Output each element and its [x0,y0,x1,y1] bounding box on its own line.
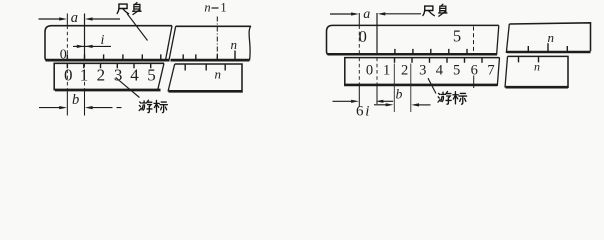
vernier bar bottom thick edge [55,89,161,92]
vernier right piece left break (slanted) [168,64,175,92]
svg-text:5: 5 [453,63,460,79]
extension line V2' dashed through vernier [376,58,378,86]
leader line to main bar [127,14,148,41]
dimension b: left arrow (points right at ext) on lower line [374,104,387,106]
svg-text:a: a [363,7,370,22]
extension line V2' bottom solid [376,86,378,105]
svg-text:i: i [101,33,105,48]
vernier right piece ticks [185,64,225,71]
vernier ticks (left piece) [67,63,150,68]
svg-text:1: 1 [220,1,226,15]
dimension b: right arrow segment [417,104,431,106]
svg-text:3: 3 [419,63,426,79]
vernier right piece top edge [175,64,242,93]
label youbiao 游标 (right figure) [438,92,451,105]
vernier right piece bottom thick edge [506,86,569,89]
main right piece bottom thick edge [171,59,250,62]
label chishen 尺身 (right figure) [423,6,434,16]
svg-text:n: n [204,1,210,15]
main scale bar (left piece) outline [45,26,172,61]
vernier right piece bottom thick edge [169,90,243,93]
svg-text:2: 2 [97,66,106,85]
svg-text:n: n [214,67,221,82]
dimension a: right arrow segment [91,18,120,20]
svg-text:4: 4 [130,66,139,85]
dimension b: right arrow segment [91,107,122,109]
vernier right piece left break (slanted) [505,56,508,87]
svg-text:7: 7 [487,63,494,79]
svg-text:1: 1 [383,63,390,79]
dimension 6i: left arrow segment [333,100,353,102]
main scale right break (slanted) [497,25,499,55]
main right piece left break (slanted) [169,26,176,61]
leader line from vernier [116,78,140,98]
dimension b: left arrow segment [39,107,60,109]
vernier right break (slanted) [497,58,499,86]
extension line V1' x=359.3 top solid [358,13,360,25]
dimension a: left arrow segment [330,13,352,15]
extension line V1' dashed through bars [358,25,360,85]
extension line V1 bottom solid [66,91,68,116]
svg-text:n: n [534,59,540,73]
extension line V2 dashed through vernier [84,63,86,90]
main scale ticks (left piece) [67,54,160,59]
svg-text:0: 0 [60,47,67,62]
svg-text:5: 5 [453,26,461,45]
bottom tick stub x=473.7 [473,76,475,89]
main right piece ticks [183,51,235,60]
main scale right piece top edge [509,23,590,52]
main right piece left break (slanted) [506,24,509,53]
center dash-dot line x=217.3 [216,17,218,66]
dimension 6i: right arrow (points left at V2') with tail to b ext [383,100,394,102]
svg-text:n: n [231,37,238,52]
svg-text:2: 2 [401,63,408,79]
label chishen 尺身 (left figure) [117,4,128,14]
label youbiao 游标 (left figure) [139,100,152,112]
main right piece right break (S curve) [249,26,251,61]
main scale bar bottom thick edge [46,59,169,62]
main scale bar (left piece) outline [327,25,499,54]
svg-text:n: n [548,30,555,45]
dimension a: left arrow segment [39,18,61,20]
vernier right piece top edge [508,56,569,88]
svg-text:b: b [72,92,79,108]
dimension a: right arrow segment [384,13,421,15]
svg-text:0: 0 [359,27,367,46]
extension line V1 dashed through bars [66,26,68,91]
svg-text:0: 0 [64,66,73,85]
main right piece bottom thick edge [507,51,591,54]
main scale bar right break line (slanted) [165,26,172,62]
main right piece ticks [528,43,567,51]
vernier bar (left piece) outline [345,58,500,87]
svg-text:a: a [71,10,78,26]
vernier bar (left piece) outline [54,63,164,90]
extension line V2 bottom solid [84,91,86,116]
main scale bottom thick edge [328,53,498,56]
svg-text:4: 4 [436,63,444,79]
svg-text:0: 0 [366,63,373,79]
dimension i line with converging arrowheads at x=85 [73,45,111,47]
dashed tick x=473.5 [473,27,475,54]
extension line V1 x=67.35 top solid [66,14,68,26]
vernier bar right break line (slanted) [158,63,165,91]
extension lines b-dim x=394.3 and x=410.8 [394,64,411,113]
svg-text:5: 5 [147,66,156,85]
vernier ticks [395,58,483,63]
main scale ticks [395,49,467,54]
extension line V2 x=84.5 top solid [84,14,86,62]
svg-text:1: 1 [80,66,89,85]
leader line [428,78,436,93]
svg-text:b: b [396,87,403,102]
svg-text:6: 6 [356,104,364,120]
extension line V2' x=377 top+bar solid [376,13,378,55]
vernier right piece ticks [519,56,539,62]
extension line V1' bottom solid [358,86,360,108]
vernier bottom thick edge [346,84,498,87]
main scale right piece top edge [176,25,251,27]
svg-text:i: i [365,104,369,120]
